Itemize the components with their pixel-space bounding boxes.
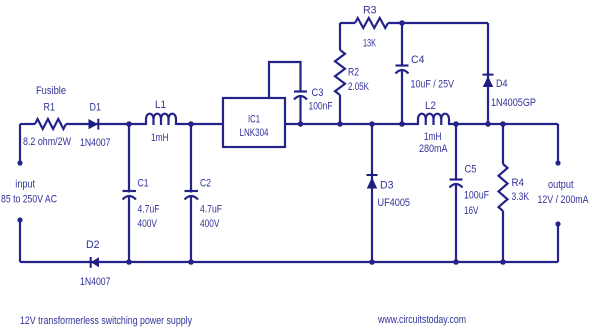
svg-text:85 to 250V AC: 85 to 250V AC — [1, 194, 57, 206]
node R4 bottom rail junction — [500, 259, 506, 265]
node D4 main rail junction — [485, 121, 491, 127]
wire top rail R3 to D4 corner — [388, 22, 488, 24]
svg-text:3.3K: 3.3K — [512, 191, 530, 203]
svg-text:L2: L2 — [425, 100, 436, 112]
wire IC1 top loop — [269, 62, 301, 99]
wire main rail IC1 to L2 — [285, 123, 418, 125]
svg-text:16V: 16V — [464, 205, 479, 217]
inductor L1 — [146, 114, 176, 125]
wire output upper stub — [557, 124, 559, 163]
wire C5 upper — [455, 124, 457, 181]
capacitor C2 plates — [185, 191, 199, 200]
wire input lower stub — [19, 220, 21, 262]
wire main rail L2 to output corner — [449, 123, 558, 125]
node D3 bottom rail junction — [369, 259, 375, 265]
svg-text:R3: R3 — [363, 5, 377, 17]
svg-text:R4: R4 — [512, 177, 525, 189]
wire D3 column — [371, 124, 373, 262]
svg-text:LNK304: LNK304 — [240, 127, 269, 139]
diode D3 — [367, 174, 378, 189]
wire R2 upper — [339, 23, 341, 50]
resistor R4 — [499, 164, 508, 211]
svg-text:C1: C1 — [138, 178, 149, 190]
capacitor C5 plates — [450, 180, 463, 188]
capacitor C3 plates — [294, 92, 307, 100]
capacitor C4 plates — [396, 66, 409, 74]
wire bottom rail — [20, 261, 558, 263]
svg-text:R2: R2 — [348, 67, 359, 79]
svg-text:280mA: 280mA — [419, 143, 448, 155]
wire top rail left of R3 — [340, 22, 355, 24]
svg-text:12V transformerless switching: 12V transformerless switching power supp… — [20, 315, 192, 327]
node D1-C1 junction — [126, 121, 132, 127]
svg-text:R1: R1 — [44, 102, 56, 114]
wire main rail left segment — [20, 123, 35, 125]
wire C1 column upper — [128, 124, 130, 193]
svg-text:100uF: 100uF — [464, 190, 489, 202]
resistor R3 — [355, 18, 388, 28]
wire input upper stub — [19, 124, 21, 163]
inductor L2 — [418, 114, 449, 125]
node R2 main rail junction — [337, 121, 343, 127]
svg-text:400V: 400V — [138, 218, 158, 230]
wire R4 lower — [502, 211, 504, 262]
svg-text:C5: C5 — [465, 164, 477, 176]
wire D4 column — [487, 23, 489, 124]
svg-text:D4: D4 — [496, 78, 508, 90]
wire C3 lower — [299, 96, 301, 124]
node D3 main rail junction — [369, 121, 375, 127]
svg-text:C3: C3 — [312, 87, 324, 99]
svg-text:UF4005: UF4005 — [378, 197, 411, 209]
svg-text:4.7uF: 4.7uF — [200, 204, 222, 216]
svg-text:IC1: IC1 — [248, 114, 260, 126]
svg-text:D1: D1 — [90, 102, 102, 114]
wire C4 upper — [401, 23, 403, 67]
svg-text:13K: 13K — [363, 38, 376, 50]
node R4 main rail junction — [500, 121, 506, 127]
svg-text:1N4007: 1N4007 — [80, 137, 111, 149]
svg-text:100nF: 100nF — [309, 101, 333, 113]
wire R4 upper — [502, 124, 504, 164]
wire R2 lower — [339, 95, 341, 124]
node C4 top rail junction — [399, 20, 405, 26]
svg-text:L1: L1 — [155, 99, 166, 111]
svg-text:D3: D3 — [380, 180, 394, 192]
wire main rail L1 to IC1 — [176, 123, 223, 125]
diode D1 — [89, 119, 100, 130]
node C1 bottom rail junction — [126, 259, 132, 265]
wire main rail R1 to L1 — [66, 123, 146, 125]
svg-text:1mH: 1mH — [424, 131, 442, 143]
wire C2 column lower — [190, 196, 192, 262]
resistor R1 — [35, 119, 66, 129]
op-amp U1 IC1 box — [223, 98, 285, 147]
svg-text:output: output — [548, 179, 574, 191]
node C3 main rail junction — [298, 121, 304, 127]
svg-text:D2: D2 — [86, 239, 100, 251]
diode D2 — [90, 257, 99, 268]
node L1-C2 junction — [188, 121, 194, 127]
capacitor C1 plates — [123, 191, 137, 200]
wire output lower stub — [557, 224, 559, 262]
node input lower terminal — [17, 217, 22, 222]
node C2 bottom rail junction — [188, 259, 194, 265]
node C4 main rail junction — [399, 121, 405, 127]
node C5 main rail junction — [453, 121, 459, 127]
svg-text:400V: 400V — [200, 218, 220, 230]
node output upper terminal — [555, 160, 560, 165]
diode D4 — [483, 74, 494, 87]
svg-text:www.circuitstoday.com: www.circuitstoday.com — [377, 314, 466, 326]
wire C1 column lower — [128, 196, 130, 262]
svg-text:input: input — [15, 179, 35, 191]
node input upper terminal — [17, 160, 22, 165]
svg-text:Fusible: Fusible — [36, 85, 66, 97]
node output lower terminal — [555, 221, 560, 226]
svg-text:C4: C4 — [411, 54, 425, 66]
svg-text:1N4007: 1N4007 — [80, 276, 111, 288]
svg-text:4.7uF: 4.7uF — [138, 204, 160, 216]
svg-text:1mH: 1mH — [151, 132, 169, 144]
svg-text:10uF / 25V: 10uF / 25V — [411, 79, 455, 91]
svg-text:1N4005GP: 1N4005GP — [491, 97, 536, 109]
resistor R2 — [335, 50, 345, 95]
svg-text:C2: C2 — [200, 178, 211, 190]
wire C2 column upper — [190, 124, 192, 193]
node C5 bottom rail junction — [453, 259, 459, 265]
svg-text:12V / 200mA: 12V / 200mA — [538, 194, 590, 206]
svg-text:2.05K: 2.05K — [348, 81, 369, 93]
wire C5 lower — [455, 184, 457, 262]
wire C4 lower — [401, 70, 403, 124]
svg-text:8.2 ohm/2W: 8.2 ohm/2W — [23, 136, 71, 148]
